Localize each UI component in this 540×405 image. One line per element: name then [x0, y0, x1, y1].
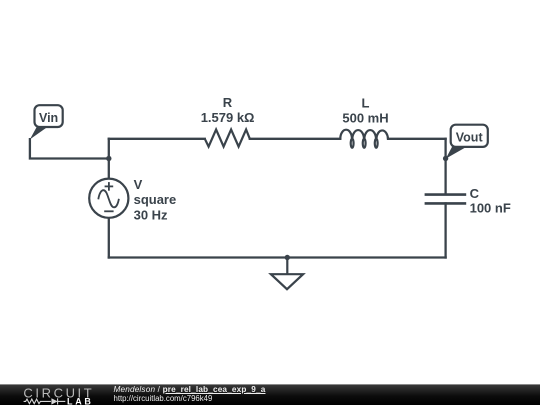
wire: source bottom to bottom rail	[108, 218, 110, 258]
svg-text:V: V	[134, 177, 143, 192]
logo diode triangle	[51, 398, 57, 404]
svg-text:LAB: LAB	[67, 396, 94, 405]
resistor R1 zigzag	[205, 130, 250, 147]
node dot: ground junction	[285, 255, 290, 260]
ground symbol stem	[286, 258, 288, 275]
wire: top rail from left corner to resistor	[109, 138, 205, 140]
voltage source V1 circle	[89, 179, 128, 218]
wire: between resistor and inductor	[250, 138, 340, 140]
CircuitLab logo	[0, 385, 100, 405]
wire: Vin tail drop to bottom-left corner	[30, 139, 109, 158]
flag Vout tail	[446, 146, 469, 159]
node dot: Vin junction	[106, 156, 111, 161]
wire: right vertical down to capacitor	[444, 139, 446, 194]
svg-text:500 mH: 500 mH	[342, 111, 388, 126]
flag Vin tail	[30, 126, 49, 139]
credit line 1	[114, 386, 266, 394]
flag Vin box	[35, 105, 63, 127]
logo resistor zigzag and diode wire	[24, 398, 66, 404]
flag Vout box	[451, 125, 488, 147]
svg-text:1.579 kΩ: 1.579 kΩ	[201, 110, 255, 125]
inductor L1 coil	[340, 130, 388, 148]
voltage source plus sign	[105, 182, 114, 191]
svg-text:R: R	[223, 95, 233, 110]
svg-text:100 nF: 100 nF	[470, 201, 511, 216]
svg-text:Vin: Vin	[39, 111, 58, 125]
wire: left vertical from top corner down to source top	[108, 139, 110, 179]
credit line 2	[114, 395, 213, 403]
svg-text:Vout: Vout	[456, 131, 484, 145]
voltage source sine wave	[98, 190, 119, 207]
svg-text:L: L	[362, 96, 370, 111]
svg-text:C: C	[470, 186, 480, 201]
voltage source minus sign	[104, 210, 113, 212]
ground symbol triangle	[271, 274, 303, 289]
svg-text:square: square	[134, 192, 177, 207]
svg-text:30 Hz: 30 Hz	[134, 207, 168, 222]
wire: capacitor bottom to bottom rail	[444, 203, 446, 257]
wire: bottom rail	[109, 256, 446, 258]
capacitor C plates	[425, 195, 467, 204]
wire: inductor to right corner	[388, 138, 446, 140]
footer bar	[0, 384, 540, 405]
node dot: Vout junction	[443, 156, 448, 161]
